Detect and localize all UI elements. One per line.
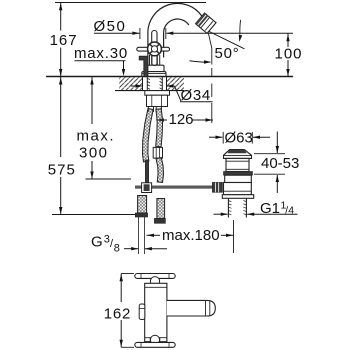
svg-text:G1: G1 bbox=[260, 200, 280, 217]
svg-text:Ø63: Ø63 bbox=[225, 130, 253, 147]
svg-text:max.180: max.180 bbox=[162, 227, 220, 244]
svg-text:100: 100 bbox=[275, 46, 303, 63]
svg-text:Ø50: Ø50 bbox=[94, 18, 127, 35]
svg-text:/4: /4 bbox=[285, 205, 294, 217]
svg-text:40-53: 40-53 bbox=[261, 155, 299, 172]
svg-text:50°: 50° bbox=[215, 45, 240, 62]
svg-text:max.: max. bbox=[77, 128, 116, 145]
svg-text:max.30: max.30 bbox=[74, 45, 128, 62]
svg-text:126: 126 bbox=[169, 111, 194, 128]
svg-text:3: 3 bbox=[104, 234, 110, 246]
svg-text:162: 162 bbox=[104, 305, 131, 322]
svg-text:Ø34: Ø34 bbox=[181, 87, 211, 104]
svg-text:300: 300 bbox=[79, 145, 109, 162]
svg-text:G: G bbox=[91, 234, 103, 251]
svg-text:8: 8 bbox=[114, 243, 120, 255]
svg-text:575: 575 bbox=[48, 162, 76, 179]
